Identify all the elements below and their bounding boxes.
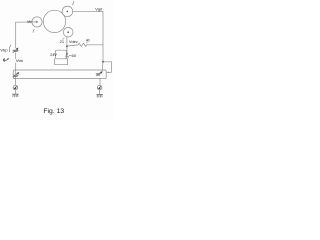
arrowhead Vtrp xyxy=(16,48,19,51)
wire: charging roller to right rail xyxy=(73,11,103,62)
zener diode bar xyxy=(66,56,69,57)
wire: left rail lower segment to box top xyxy=(15,63,17,70)
junction dot right rail xyxy=(102,61,104,63)
svg-text:40: 40 xyxy=(86,39,90,43)
charging roller 2 xyxy=(62,6,73,17)
left variable element bars xyxy=(14,75,19,76)
center dot developing roller xyxy=(67,31,69,33)
bypass arrowhead xyxy=(107,72,109,74)
center dot charging roller xyxy=(67,11,69,13)
wire: left rail upper segment to Vtrn gap xyxy=(15,53,17,59)
leader tick below left roller xyxy=(33,29,34,32)
center dot left roller xyxy=(36,21,38,23)
arrowhead right variable xyxy=(100,71,103,74)
left ground rake xyxy=(12,94,18,97)
leader tick to 2 xyxy=(72,1,73,5)
white gap for Vtrn label xyxy=(15,59,24,63)
variable source Vtrp arrow xyxy=(13,49,17,53)
right rail into belt box xyxy=(101,62,104,71)
right wire below box to meter xyxy=(99,79,101,86)
right meter to ground xyxy=(99,90,101,95)
left wire through box xyxy=(15,70,17,79)
wire: Vdev junction to resistor xyxy=(67,45,78,46)
variable source Vtrp bars xyxy=(13,50,18,51)
6 label arrow xyxy=(6,59,9,61)
left meter circle xyxy=(13,85,18,90)
resistor 40 zigzag xyxy=(78,43,87,46)
svg-text:21: 21 xyxy=(60,39,65,44)
zener triangle xyxy=(66,53,68,56)
right rail junction to bypass xyxy=(103,62,112,73)
21 label leader xyxy=(63,38,65,40)
right variable element bars xyxy=(96,74,100,75)
right meter circle xyxy=(97,85,102,90)
60 leader dash xyxy=(69,55,71,57)
svg-text:Vtrn: Vtrn xyxy=(16,58,23,63)
developing roller 21 xyxy=(63,27,73,37)
left roller (Vtr) xyxy=(32,17,42,27)
svg-text:Fig. 13: Fig. 13 xyxy=(43,108,64,115)
svg-text:60: 60 xyxy=(72,53,77,58)
wire: resistor to right rail xyxy=(87,44,103,46)
glyph in left meter xyxy=(14,86,16,89)
svg-text:Vdev: Vdev xyxy=(69,40,78,44)
junction dot Vdev xyxy=(66,46,68,48)
resistor 40 leader xyxy=(86,42,88,43)
left wire below box to meter xyxy=(15,79,17,86)
zener box 60 xyxy=(55,50,66,59)
svg-text:Vtr: Vtr xyxy=(27,20,33,24)
zener diode lead top xyxy=(66,50,68,53)
svg-text:6: 6 xyxy=(3,58,6,63)
photosensitive drum 1 xyxy=(43,10,65,32)
Vtrp label leader curve xyxy=(9,45,11,52)
svg-text:Vtrp: Vtrp xyxy=(0,48,8,53)
wire: left roller to left rail corner xyxy=(16,22,37,48)
svg-text:24V: 24V xyxy=(50,53,57,57)
U wire under zener box xyxy=(55,59,68,65)
arrowhead left variable xyxy=(17,72,20,75)
right ground rake xyxy=(97,95,103,98)
right variable element arrow xyxy=(97,72,102,76)
left variable element arrow xyxy=(13,73,18,77)
zener diode lead bottom xyxy=(66,57,69,60)
arrowhead 6 label xyxy=(7,58,9,60)
glyph in right meter xyxy=(98,86,100,89)
wire: Vdev roller down xyxy=(66,37,68,51)
left meter to ground xyxy=(14,90,16,94)
transfer unit long box xyxy=(13,70,106,79)
svg-text:Vgri: Vgri xyxy=(95,6,102,11)
24V leader tick xyxy=(55,53,56,54)
